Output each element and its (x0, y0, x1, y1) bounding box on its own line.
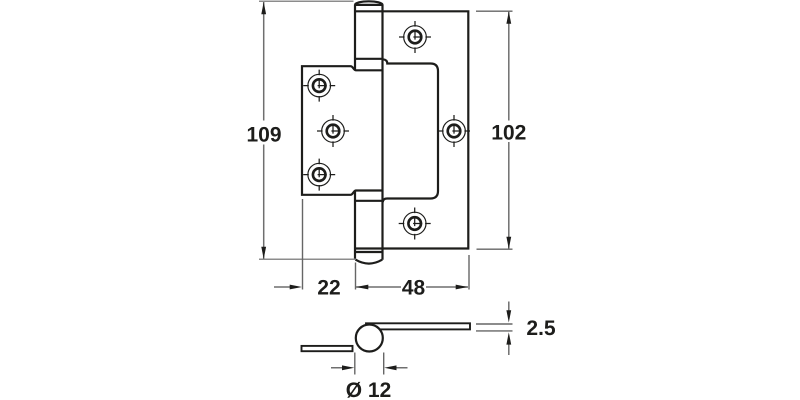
dimension 109: arrowheads (261, 2, 266, 14)
dimension 102: extension lines (476, 11, 513, 249)
dimension 22: extension line (302, 199, 304, 290)
hinge pin barrel (355, 5, 383, 260)
flag cutout (folded leaf silhouette) (383, 59, 438, 202)
screw hole E (right bottom) (399, 208, 431, 240)
pin bottom cap (355, 260, 382, 264)
profile view: right leaf bar (366, 323, 470, 329)
dimension Ø12: arrows (331, 367, 408, 369)
dimension 102: dimension line (508, 12, 510, 250)
pin top cap (355, 1, 383, 5)
dimension 102: arrowheads (506, 12, 511, 24)
dimension 109: extension lines (259, 1, 356, 259)
screw hole D (right top) (399, 21, 431, 53)
dimension 2.5: extension line stubs (476, 324, 513, 331)
profile view: knuckle circle (356, 325, 383, 352)
dimension 102: label (493, 125, 526, 140)
dimension 22: leader with arrowhead (274, 286, 292, 288)
screw hole C (left bottom) (303, 159, 335, 191)
dimension 48: label (402, 280, 424, 295)
screw hole A (left top) (303, 70, 335, 102)
dimension 48: dimension line (356, 286, 468, 288)
dimension 2.5: dimension line with arrows (508, 302, 510, 356)
dimension Ø12: extension lines (355, 353, 384, 375)
dimension 2.5: label (527, 320, 555, 335)
dimension 48: arrowheads (356, 285, 368, 290)
screw hole B (left middle) (317, 115, 349, 147)
dimension Ø12: label (347, 382, 391, 398)
dimension 48: extension lines (356, 255, 470, 290)
screw hole F (right middle) (438, 115, 470, 147)
right leaf plate (355, 11, 468, 248)
dimension 109: dimension line (263, 2, 265, 259)
left leaf plate (302, 66, 383, 195)
dimension 22: label (318, 280, 340, 295)
dimension 109: label (248, 127, 281, 142)
profile view: left leaf bar (302, 346, 353, 351)
